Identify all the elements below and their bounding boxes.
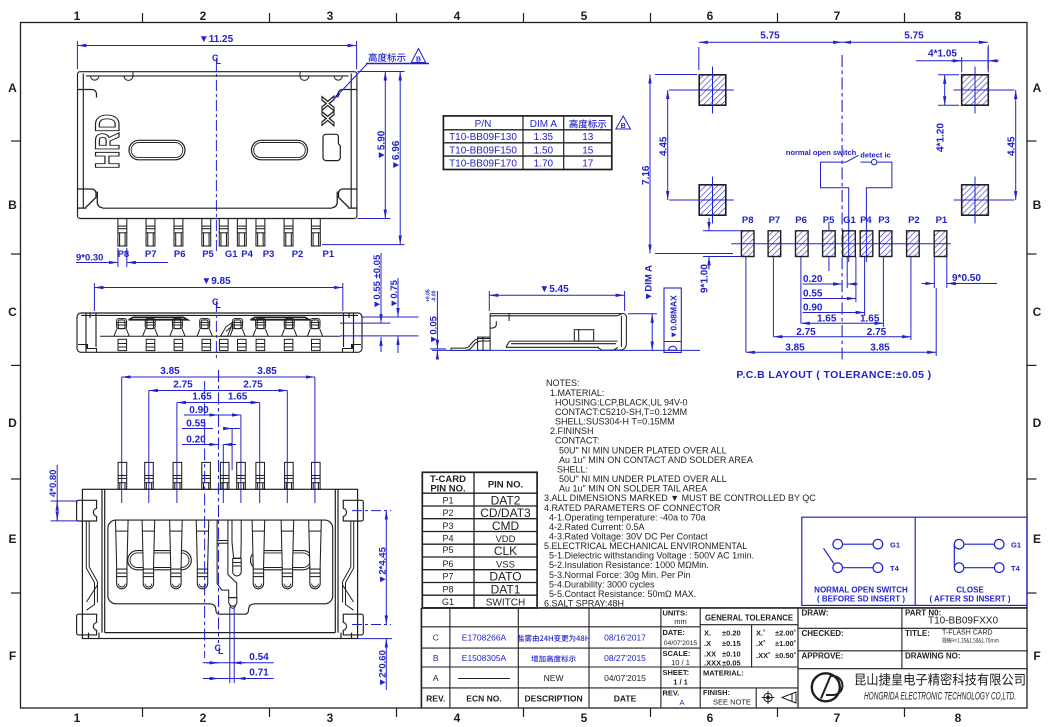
svg-text:X.˚: X.˚ (756, 628, 766, 637)
svg-text:.XX˚: .XX˚ (756, 651, 771, 660)
svg-text:17: 17 (582, 159, 594, 170)
dim 2*0.60 (358, 639, 392, 690)
svg-text:▼6.96: ▼6.96 (391, 140, 402, 170)
projection symbol (762, 691, 775, 704)
svg-text:0.54: 0.54 (249, 652, 269, 663)
side view dim 5.45 (489, 291, 624, 311)
right slot (252, 140, 308, 160)
svg-text:50U" NI MIN UNDER PLATED OVER: 50U" NI MIN UNDER PLATED OVER ALL (559, 445, 727, 455)
flatness frame 0.08MAX (664, 288, 681, 353)
triangle B next to P/N table (616, 116, 631, 129)
dim 0.54 (203, 662, 274, 664)
t-card table text (430, 474, 531, 609)
svg-text:SHELL:: SHELL: (557, 464, 588, 474)
switch circuit wires (821, 155, 892, 262)
svg-text:P2: P2 (292, 249, 304, 260)
svg-text:E: E (1033, 532, 1041, 546)
svg-text:P6: P6 (174, 249, 186, 260)
svg-text:CMD: CMD (492, 519, 520, 533)
svg-text:XX: XX (318, 96, 338, 126)
svg-text:5: 5 (581, 711, 588, 725)
pcb pad row (9 pads) (741, 231, 946, 257)
svg-text:DIM A: DIM A (530, 119, 558, 130)
switch arm tip (233, 559, 242, 576)
svg-text:T-FLASH CARD: T-FLASH CARD (942, 630, 993, 637)
corner pad BR (954, 177, 1015, 224)
dim 4*0.80 (51, 465, 78, 521)
svg-text:F: F (9, 649, 16, 663)
svg-text:PIN NO.: PIN NO. (430, 484, 465, 495)
svg-text:B: B (1033, 198, 1042, 212)
svg-text:A: A (433, 673, 439, 683)
svg-text:P4: P4 (442, 534, 453, 544)
ruler letters right (1033, 81, 1042, 663)
svg-text:P7: P7 (769, 215, 781, 226)
svg-text:SEE NOTE: SEE NOTE (713, 698, 751, 707)
svg-text:TITLE:: TITLE: (905, 629, 930, 638)
svg-text:0.55: 0.55 (803, 289, 823, 300)
svg-text:▼2*4.45: ▼2*4.45 (377, 546, 388, 584)
svg-text:▼2*0.60: ▼2*0.60 (377, 650, 388, 687)
front view top slots (129, 317, 310, 319)
svg-text:5-3.Normal Force: 30g Min. P: 5-3.Normal Force: 30g Min. Per Pin (549, 570, 691, 580)
svg-text:8: 8 (955, 711, 962, 725)
ruler numbers bottom (74, 711, 962, 725)
ruler numbers top (74, 9, 962, 23)
svg-text:±0.50˚: ±0.50˚ (775, 651, 796, 660)
revision table rows (426, 633, 646, 704)
front view end feet (78, 345, 361, 353)
svg-text:3.85: 3.85 (870, 342, 890, 353)
svg-text:detect ic: detect ic (860, 151, 890, 160)
front view centerline (215, 301, 217, 360)
svg-text:.X: .X (704, 639, 711, 648)
svg-text:4: 4 (454, 711, 461, 725)
corner pad TL (669, 67, 734, 114)
svg-text:4*1.20: 4*1.20 (936, 123, 947, 152)
svg-text:P6: P6 (442, 559, 453, 569)
right spring detail (343, 521, 354, 610)
svg-text:P5: P5 (202, 249, 214, 260)
top view centerline (215, 60, 217, 252)
cavity slot stadium right (251, 551, 313, 570)
svg-text:3.85: 3.85 (160, 366, 180, 377)
svg-text:REV.: REV. (663, 689, 680, 698)
svg-text:P6: P6 (795, 215, 807, 226)
svg-text:3: 3 (327, 711, 334, 725)
svg-text:G1: G1 (843, 215, 856, 226)
svg-text:A: A (679, 698, 684, 707)
svg-text:9*1.00: 9*1.00 (700, 264, 711, 293)
pcb centerline (841, 55, 843, 360)
svg-text:9*0.30: 9*0.30 (76, 253, 103, 264)
svg-text:normal open switch: normal open switch (786, 148, 857, 157)
svg-text:2.75: 2.75 (173, 380, 193, 391)
svg-text:C: C (8, 305, 17, 319)
corner tabs bottom with chamfers (78, 189, 358, 208)
svg-text:6.SALT SPRAY:48H: 6.SALT SPRAY:48H (544, 599, 624, 609)
svg-text:FINISH:: FINISH: (703, 688, 730, 697)
svg-text:5.75: 5.75 (904, 31, 924, 42)
dim 6.96 right (322, 72, 405, 245)
svg-text:±0.05: ±0.05 (722, 659, 741, 668)
svg-text:G1: G1 (442, 597, 454, 607)
cone symbol (782, 692, 796, 703)
svg-text:4.RATED PARAMETERS OF CONNECTO: 4.RATED PARAMETERS OF CONNECTOR (544, 503, 721, 513)
left slot (129, 140, 185, 160)
t-card table grid (422, 472, 537, 608)
front view center switch contact (221, 322, 233, 336)
svg-text:7: 7 (834, 711, 841, 725)
company name chinese (855, 673, 1024, 686)
svg-text:DATE:: DATE: (663, 628, 685, 637)
svg-text:3.ALL DIMENSIONS MARKED ▼ MUST: 3.ALL DIMENSIONS MARKED ▼ MUST BE CONTRO… (544, 493, 816, 503)
switch arm reference lines (230, 607, 234, 683)
svg-text:APPROVE:: APPROVE: (802, 652, 844, 661)
svg-text:DAT1: DAT1 (491, 582, 521, 596)
svg-text:7: 7 (834, 9, 841, 23)
svg-text:8: 8 (955, 9, 962, 23)
switch lower tip (229, 598, 237, 607)
svg-text:MATERIAL:: MATERIAL: (703, 669, 744, 678)
svg-text:T4: T4 (890, 564, 900, 573)
top view pins (9) (118, 219, 320, 247)
svg-text:2.75: 2.75 (796, 327, 816, 338)
svg-text:T10-BB09F150: T10-BB09F150 (449, 145, 517, 156)
svg-text:▼5.45: ▼5.45 (539, 284, 569, 295)
switch arm finger (232, 520, 241, 558)
svg-text:2: 2 (200, 9, 207, 23)
bottom view dim stack lines (122, 377, 315, 445)
CL symbol bottom view (215, 643, 225, 656)
svg-text:4.45: 4.45 (659, 136, 670, 156)
svg-text:CHECKED:: CHECKED: (802, 629, 844, 638)
dim 2*4.45 (385, 511, 387, 625)
svg-text:.XX: .XX (704, 650, 716, 659)
front view right dim lines (340, 253, 419, 353)
svg-text:2.75: 2.75 (243, 380, 263, 391)
left spring detail (86, 521, 97, 610)
svg-text:5.75: 5.75 (760, 31, 780, 42)
svg-text:.X˚: .X˚ (756, 639, 766, 648)
part no / title / drawing no (905, 609, 999, 661)
dim 0.05 left of side view (430, 291, 446, 358)
svg-text:▼0.75: ▼0.75 (389, 279, 400, 308)
svg-text:▼DIM A: ▼DIM A (644, 265, 655, 301)
svg-text:P/N: P/N (475, 119, 492, 130)
svg-text:2.FININSH: 2.FININSH (550, 426, 594, 436)
svg-text:▼5.90: ▼5.90 (376, 130, 387, 160)
cavity slot stadium left (128, 551, 192, 570)
normal open switch schematic (824, 539, 883, 572)
dim 5.90 right (358, 72, 405, 219)
svg-text:13: 13 (582, 132, 594, 143)
svg-text:0.90: 0.90 (189, 405, 209, 416)
svg-text:A: A (1033, 81, 1042, 95)
svg-text:( AFTER SD INSERT ): ( AFTER SD INSERT ) (929, 595, 1010, 604)
svg-text:G1: G1 (1011, 540, 1021, 549)
svg-text:P.C.B LAYOUT ( TOLERANCE:±0.0: P.C.B LAYOUT ( TOLERANCE:±0.05 ) (736, 369, 931, 381)
top view pin labels (118, 249, 335, 260)
svg-text:DESCRIPTION: DESCRIPTION (525, 694, 583, 704)
svg-text:P8: P8 (742, 215, 754, 226)
svg-text:5.ELECTRICAL MECHANICAL ENVIRO: 5.ELECTRICAL MECHANICAL ENVIRONMENTAL (544, 541, 747, 551)
svg-text:▼11.25: ▼11.25 (199, 34, 234, 45)
P/N table grid (443, 116, 611, 170)
svg-text:Au 1u" MIN ON SOLDER TAIL AREA: Au 1u" MIN ON SOLDER TAIL AREA (559, 484, 707, 494)
svg-text:CLK: CLK (494, 544, 517, 558)
svg-text:3.85: 3.85 (785, 342, 805, 353)
svg-text:±1.00˚: ±1.00˚ (775, 639, 796, 648)
svg-text:mm: mm (674, 617, 687, 626)
svg-text:T10-BB09F130: T10-BB09F130 (449, 132, 517, 143)
dim 5.75 left (699, 42, 842, 70)
svg-text:B: B (433, 653, 439, 663)
front view dim 9.85 (94, 283, 342, 311)
svg-text:.XXX: .XXX (704, 659, 721, 668)
top edge notches (91, 72, 343, 81)
svg-text:15: 15 (582, 145, 594, 156)
svg-text:▼0.05: ▼0.05 (429, 315, 440, 344)
svg-text:T10-BB09FXX0: T10-BB09FXX0 (928, 616, 998, 627)
svg-text:3.85: 3.85 (257, 366, 277, 377)
pcb pad row axis line (731, 243, 951, 245)
svg-text:5-5.Contact Resistance: 50mΩ M: 5-5.Contact Resistance: 50mΩ MAX. (549, 589, 696, 599)
bottom view extension lines (122, 377, 315, 503)
svg-text:P3: P3 (442, 521, 453, 531)
svg-text:P3: P3 (878, 215, 890, 226)
P/N table text (449, 119, 606, 170)
svg-text:P7: P7 (442, 572, 453, 582)
svg-text:CONTACT:C5210-SH,T=0.12MM: CONTACT:C5210-SH,T=0.12MM (555, 407, 687, 417)
svg-text:NOTES:: NOTES: (546, 378, 580, 388)
switch diagram box (802, 517, 1027, 605)
svg-text:0.20: 0.20 (186, 435, 206, 446)
dim 7.16 (650, 75, 733, 254)
svg-text:0.71: 0.71 (249, 668, 269, 679)
CL symbol top view (212, 53, 222, 66)
svg-text:G1: G1 (225, 249, 238, 260)
units/date/scale/sheet/rev column (663, 609, 691, 698)
bottom view dim stack texts (160, 366, 277, 446)
svg-text:E1708266A: E1708266A (462, 633, 507, 643)
svg-text:HONGRIDA ELECTRONIC TECHNOLOGY: HONGRIDA ELECTRONIC TECHNOLOGY CO,LTD. (864, 691, 1016, 703)
svg-text:4: 4 (454, 9, 461, 23)
svg-text:P1: P1 (936, 215, 948, 226)
svg-text:6: 6 (707, 9, 714, 23)
svg-text:9*0.50: 9*0.50 (952, 273, 981, 284)
svg-text:1.35: 1.35 (534, 132, 554, 143)
svg-text:5-4.Durability: 3000 cycles: 5-4.Durability: 3000 cycles (549, 579, 655, 589)
ruler letters left (8, 81, 17, 663)
side view body (451, 314, 626, 351)
svg-text:1.70: 1.70 (534, 159, 554, 170)
svg-text:T10-BB09F170: T10-BB09F170 (449, 159, 517, 170)
svg-text:DATE: DATE (614, 694, 637, 704)
svg-text:SHEET:: SHEET: (663, 668, 690, 677)
svg-text:0.20: 0.20 (803, 274, 823, 285)
svg-text:▼9.85: ▼9.85 (201, 276, 231, 287)
svg-text:±0.20: ±0.20 (722, 628, 741, 637)
height mark annotation 高度标示 B (369, 53, 406, 62)
svg-text:GENERAL TOLERANCE: GENERAL TOLERANCE (705, 614, 794, 623)
corner pad TR (954, 67, 1015, 114)
svg-text:2.75: 2.75 (867, 327, 887, 338)
svg-text:1.MATERIAL:: 1.MATERIAL: (550, 388, 604, 398)
svg-text:CLOSE: CLOSE (956, 586, 984, 595)
corner brackets top (78, 90, 358, 98)
svg-text:4-1.Operating temperature: -40: 4-1.Operating temperature: -40a to 70a (549, 512, 706, 522)
svg-text:P1: P1 (322, 249, 334, 260)
svg-text:SHELL:SUS304-H T=0.15MM: SHELL:SUS304-H T=0.15MM (555, 417, 675, 427)
svg-text:REV.: REV. (426, 694, 445, 704)
svg-text:±2.00˚: ±2.00˚ (775, 628, 796, 637)
company logo (812, 673, 843, 701)
svg-text:HRD: HRD (89, 114, 127, 169)
draw/checked/approve labels (802, 609, 844, 661)
tab centerline dashes right (352, 511, 391, 625)
svg-text:7.16: 7.16 (641, 165, 652, 185)
dim 0.71 (203, 678, 274, 680)
svg-text:P8: P8 (442, 584, 453, 594)
svg-text:B: B (8, 198, 17, 212)
front view body (77, 313, 362, 352)
svg-text:HOUSING:LCP,BLACK,UL 94V-0: HOUSING:LCP,BLACK,UL 94V-0 (555, 397, 688, 407)
svg-text:T4: T4 (1011, 564, 1021, 573)
svg-text:1 / 1: 1 / 1 (673, 678, 688, 687)
svg-text:5-2.Insulation Resistance: 100: 5-2.Insulation Resistance: 1000 MΩMin. (549, 560, 709, 570)
svg-text:C: C (433, 633, 439, 643)
svg-text:B: B (416, 57, 421, 64)
svg-text:3: 3 (327, 9, 334, 23)
svg-text:P4: P4 (860, 215, 872, 226)
svg-text:50U" NI MIN UNDER PLATED OVER: 50U" NI MIN UNDER PLATED OVER ALL (559, 474, 727, 484)
svg-text:4-3.Rated Voltage: 30V DC Per: 4-3.Rated Voltage: 30V DC Per Contact (549, 532, 708, 542)
svg-text:X.: X. (704, 628, 711, 637)
svg-text:P4: P4 (241, 249, 253, 260)
svg-text:D: D (8, 416, 17, 430)
svg-text:5: 5 (581, 9, 588, 23)
top view: dim 11.25 (77, 41, 356, 69)
close switch schematic (954, 539, 1004, 572)
svg-text:5-1.Dielectric withstanding Vo: 5-1.Dielectric withstanding Voltage : 50… (549, 551, 754, 561)
svg-text:ECN NO.: ECN NO. (466, 694, 501, 704)
svg-text:4.45: 4.45 (1007, 136, 1018, 156)
svg-text:Au 1u" MIN ON CONTACT AND SOL: Au 1u" MIN ON CONTACT AND SOLDER AREA (559, 455, 753, 465)
dim 4.45 pcb-left (667, 90, 669, 200)
dim 4*1.20 (938, 75, 959, 105)
pcb pad row labels (742, 215, 948, 226)
svg-text:±0.15: ±0.15 (722, 639, 741, 648)
svg-text:SWITCH: SWITCH (486, 598, 525, 609)
svg-text:G1: G1 (890, 540, 900, 549)
side view baseline (432, 349, 700, 351)
svg-text:DRAWING NO:: DRAWING NO: (905, 652, 961, 661)
dim 9*1.00 (703, 218, 742, 270)
title block grid (421, 608, 1027, 708)
svg-text:P7: P7 (145, 249, 157, 260)
svg-text:E1508305A: E1508305A (462, 653, 507, 663)
svg-text:-0.00: -0.00 (432, 290, 438, 302)
svg-text:04/07'2015: 04/07'2015 (604, 673, 646, 683)
svg-text:PIN NO.: PIN NO. (488, 480, 523, 491)
svg-text:10 / 1: 10 / 1 (671, 658, 690, 667)
svg-text:( BEFORE SD INSERT ): ( BEFORE SD INSERT ) (817, 595, 905, 604)
svg-text:1.65: 1.65 (192, 392, 212, 403)
side view DIM A (628, 314, 657, 351)
pad extension stubs (746, 222, 947, 356)
svg-text:SCALE:: SCALE: (663, 649, 691, 658)
svg-text:E: E (8, 532, 16, 546)
svg-text:08/16'2017: 08/16'2017 (604, 633, 646, 643)
svg-text:1.65: 1.65 (228, 392, 248, 403)
svg-text:4*0.80: 4*0.80 (48, 470, 59, 497)
svg-text:P2: P2 (908, 215, 920, 226)
CL symbol front view (212, 297, 222, 310)
svg-text:L: L (216, 56, 222, 66)
svg-text:4*1.05: 4*1.05 (928, 49, 957, 60)
svg-text:±0.10: ±0.10 (722, 650, 741, 659)
switch contact center strip (217, 520, 237, 598)
svg-text:P8: P8 (118, 249, 130, 260)
svg-text:B: B (621, 123, 626, 130)
svg-text:P3: P3 (263, 249, 275, 260)
svg-text:04/07'2015: 04/07'2015 (664, 640, 698, 647)
svg-text:▼0.08MAX: ▼0.08MAX (669, 295, 679, 339)
svg-text:P2: P2 (442, 508, 453, 518)
svg-text:0.90: 0.90 (803, 303, 823, 314)
svg-text:▼0.55 ±0.05: ▼0.55 ±0.05 (372, 254, 383, 309)
svg-text:4-2.Rated Current: 0.5A: 4-2.Rated Current: 0.5A (549, 522, 645, 532)
svg-text:0.55: 0.55 (186, 419, 206, 430)
front view pin feet (118, 339, 127, 350)
top view body outline (78, 72, 357, 219)
dim 5.75 right (842, 42, 988, 70)
bottom view cavity (108, 520, 333, 614)
dim 4.45 pcb-right (1015, 90, 1017, 200)
svg-text:1: 1 (74, 711, 81, 725)
svg-text:CONTACT:: CONTACT: (555, 436, 599, 446)
svg-text:P1: P1 (442, 495, 453, 505)
svg-text:D: D (1033, 416, 1042, 430)
corner pad BL (669, 177, 734, 224)
svg-text:F: F (1033, 649, 1040, 663)
svg-text:C: C (1033, 305, 1042, 319)
bottom view body (82, 489, 357, 638)
bottom view centerlines (218, 370, 220, 643)
svg-text:L: L (216, 300, 222, 310)
svg-text:2: 2 (200, 711, 207, 725)
svg-text:NEW: NEW (544, 673, 564, 683)
side tabs (77, 500, 364, 635)
svg-text:A: A (8, 81, 17, 95)
svg-text:6: 6 (707, 711, 714, 725)
svg-text:L: L (218, 646, 224, 656)
svg-text:1: 1 (74, 9, 81, 23)
svg-text:NORMAL OPEN SWITCH: NORMAL OPEN SWITCH (814, 586, 908, 595)
card detect cutout (323, 134, 340, 160)
svg-text:08/27'2015: 08/27'2015 (604, 653, 646, 663)
svg-text:DRAW:: DRAW: (802, 609, 829, 618)
svg-text:P5: P5 (442, 545, 453, 555)
svg-text:1.50: 1.50 (534, 145, 554, 156)
